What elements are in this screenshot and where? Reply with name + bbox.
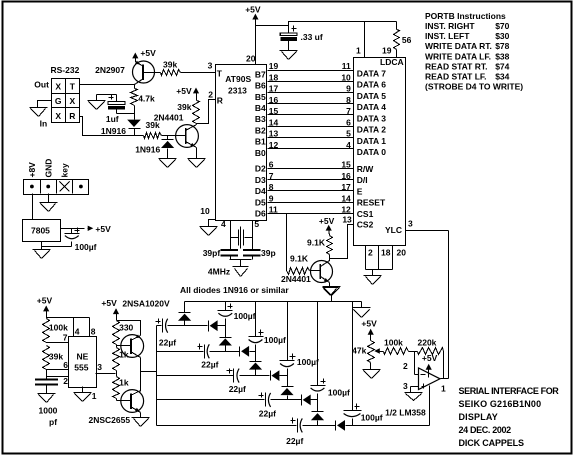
resistor 9.1K (pull-up) bbox=[307, 229, 333, 259]
wire 2N4401 emitter to ground bbox=[196, 148, 198, 159]
svg-text:D5: D5 bbox=[255, 197, 266, 207]
svg-text:DATA 6: DATA 6 bbox=[357, 80, 386, 90]
svg-text:14: 14 bbox=[269, 117, 279, 127]
wire pin 7 bbox=[47, 332, 69, 342]
+5V supply arrow (2N2907 emitter) bbox=[132, 48, 156, 58]
capacitor 22uf (stage 2) bbox=[227, 369, 247, 395]
svg-text:4: 4 bbox=[75, 326, 80, 336]
svg-text:16: 16 bbox=[269, 95, 279, 105]
label pin 11 LDCA bbox=[342, 61, 351, 71]
label pin 1 LDCA bbox=[356, 46, 361, 56]
resistor 100k (555) bbox=[43, 319, 69, 343]
svg-text:100µf: 100µf bbox=[361, 412, 383, 422]
svg-text:D2: D2 bbox=[255, 164, 266, 174]
ground (Q2 emitter) bbox=[188, 159, 206, 168]
label D6 bbox=[255, 209, 266, 219]
IC U1 AT90S2313 bbox=[216, 65, 267, 221]
wire R pin bbox=[197, 100, 216, 125]
capacitor 22uf (stage 0) bbox=[156, 319, 177, 348]
label DATA 7 bbox=[357, 69, 386, 79]
svg-text:100k: 100k bbox=[384, 338, 403, 348]
label pin 17 LDCA bbox=[341, 182, 351, 192]
+5V supply arrow (top rail) bbox=[245, 4, 261, 22]
svg-text:39k: 39k bbox=[177, 102, 191, 112]
svg-text:1: 1 bbox=[441, 383, 446, 393]
wire +5V rail NE555 bbox=[47, 307, 90, 319]
svg-text:7: 7 bbox=[269, 171, 274, 181]
svg-text:DATA 3: DATA 3 bbox=[357, 113, 386, 123]
svg-text:22µf: 22µf bbox=[201, 359, 218, 369]
svg-text:4: 4 bbox=[221, 219, 226, 229]
ground (rail end) bbox=[353, 308, 371, 318]
svg-text:B6: B6 bbox=[255, 81, 266, 91]
svg-text:R/W: R/W bbox=[357, 164, 375, 174]
wire Q3 emitter to ground bbox=[329, 283, 331, 288]
svg-text:+5V: +5V bbox=[140, 48, 156, 58]
svg-text:13: 13 bbox=[342, 214, 352, 224]
diode pump D2 (line0) bbox=[209, 320, 226, 331]
ground (pin 10) bbox=[200, 227, 218, 236]
label pin 4 LDCA bbox=[346, 140, 351, 150]
svg-text:15: 15 bbox=[341, 160, 351, 170]
svg-text:+5V: +5V bbox=[37, 296, 53, 306]
svg-text:12: 12 bbox=[269, 140, 279, 150]
wire B7 to DATA 7 (pins 19->11) bbox=[268, 70, 354, 72]
ground (clamp diode) bbox=[159, 159, 177, 168]
svg-text:DATA 0: DATA 0 bbox=[357, 147, 386, 157]
svg-text:3: 3 bbox=[403, 381, 408, 391]
wire wiper junction bbox=[409, 352, 419, 375]
wire Q5 emitter to ground bbox=[140, 413, 142, 418]
ground (7805) bbox=[33, 250, 51, 259]
svg-text:READ STAT RT.: READ STAT RT. bbox=[425, 61, 488, 71]
wire pin 20 drop bbox=[255, 26, 257, 65]
op-amp U3 1/2 LM358 bbox=[419, 368, 441, 390]
svg-text:$78: $78 bbox=[495, 41, 509, 51]
wire pump bus bbox=[156, 326, 158, 426]
capacitor 39p (right) bbox=[243, 248, 276, 260]
svg-text:3: 3 bbox=[97, 362, 102, 372]
resistor 9.1K (base) bbox=[287, 253, 310, 274]
svg-text:4MHz: 4MHz bbox=[208, 266, 230, 276]
label pin 17 AT90S bbox=[269, 84, 279, 94]
+5V supply arrow (R pull-up) bbox=[176, 86, 199, 96]
wire CS2 bbox=[330, 225, 354, 259]
wire T cell to 2N2907 collector bbox=[80, 84, 135, 86]
svg-text:B0: B0 bbox=[255, 148, 266, 158]
svg-text:B4: B4 bbox=[255, 103, 266, 113]
label pin 16 AT90S bbox=[269, 95, 279, 105]
svg-text:11: 11 bbox=[269, 205, 278, 215]
capacitor 100uf (stage 1) bbox=[218, 302, 256, 338]
resistor 220k (feedback) bbox=[418, 338, 444, 355]
svg-text:$38: $38 bbox=[495, 51, 509, 61]
text title block bbox=[459, 386, 560, 448]
ground (pot) bbox=[363, 370, 381, 379]
resistor 1k (lower) bbox=[113, 377, 129, 399]
svg-text:56: 56 bbox=[402, 35, 412, 45]
svg-text:1uf: 1uf bbox=[106, 114, 119, 124]
label Out bbox=[34, 80, 49, 90]
svg-text:D4: D4 bbox=[255, 186, 266, 196]
svg-text:6: 6 bbox=[63, 360, 68, 370]
connector bottom pins 2 18 20 bbox=[366, 246, 407, 276]
label 2N4401 (RX) bbox=[154, 113, 184, 123]
svg-text:17: 17 bbox=[341, 182, 351, 192]
wire line3 left bbox=[157, 399, 265, 401]
label pin 2 bbox=[208, 89, 213, 99]
svg-text:17: 17 bbox=[269, 84, 279, 94]
label pin 9 LDCA bbox=[346, 84, 351, 94]
label 2NSA1020V bbox=[122, 298, 170, 308]
svg-text:B2: B2 bbox=[255, 126, 266, 136]
wire pin 5 bbox=[253, 219, 260, 250]
label B5 bbox=[255, 92, 266, 102]
svg-text:4: 4 bbox=[346, 140, 351, 150]
diode pump D1 (vertical) bbox=[178, 302, 191, 326]
ground (power conn) bbox=[40, 203, 58, 212]
label pin 8 LDCA bbox=[346, 95, 351, 105]
capacitor 100uf (stage 4) bbox=[311, 302, 350, 412]
svg-text:+5V: +5V bbox=[245, 4, 261, 14]
svg-text:X: X bbox=[55, 82, 61, 92]
label pin 3 bbox=[208, 60, 213, 70]
wire line3 mid bbox=[271, 399, 302, 401]
wire D4 to E (pins 8->17) bbox=[268, 190, 354, 192]
+5V supply arrow (NE555) bbox=[37, 296, 53, 315]
wire ground rail stub bbox=[331, 296, 333, 302]
resistor 56 bbox=[394, 22, 412, 58]
label B2 bbox=[255, 126, 266, 136]
wire line1 left bbox=[157, 351, 204, 353]
label E bbox=[357, 186, 363, 196]
label DATA 0 bbox=[357, 147, 386, 157]
svg-text:24 DEC. 2002: 24 DEC. 2002 bbox=[459, 425, 512, 435]
resistor 39k (555) bbox=[43, 346, 64, 370]
wire pin 6 bbox=[47, 360, 69, 370]
wire line2 left bbox=[157, 375, 234, 377]
svg-text:NE: NE bbox=[77, 352, 89, 362]
svg-text:+5V: +5V bbox=[361, 318, 377, 328]
svg-text:9: 9 bbox=[346, 84, 351, 94]
svg-text:14: 14 bbox=[341, 193, 351, 203]
svg-text:INST. LEFT: INST. LEFT bbox=[425, 31, 470, 41]
wire 39k to base bbox=[162, 135, 186, 137]
svg-text:47k: 47k bbox=[352, 346, 366, 356]
label pin 9 AT90S bbox=[269, 193, 274, 203]
wire D6 to CS1 (pins 11->12) bbox=[268, 213, 354, 215]
svg-text:R: R bbox=[217, 96, 223, 106]
label In bbox=[40, 119, 48, 129]
svg-text:CS1: CS1 bbox=[357, 209, 374, 219]
wire to Q5 base bbox=[117, 399, 131, 401]
label DATA 6 bbox=[357, 80, 386, 90]
svg-text:20: 20 bbox=[246, 54, 256, 64]
svg-text:8: 8 bbox=[269, 182, 274, 192]
label pin 18 AT90S bbox=[269, 72, 279, 82]
+5V supply arrow (driver) bbox=[101, 298, 119, 318]
svg-text:RESET: RESET bbox=[357, 198, 386, 208]
wire rail end bbox=[361, 302, 363, 308]
diode pump D6 (line2) bbox=[271, 370, 288, 381]
diode pump D3 (vertical) bbox=[219, 338, 232, 352]
svg-text:Out: Out bbox=[34, 80, 49, 90]
wire +5V rail to pin20 / cap / 56 resistor bbox=[256, 18, 397, 26]
label pin 5 LDCA bbox=[346, 129, 351, 139]
svg-text:LDCA: LDCA bbox=[380, 57, 404, 67]
wire pin 3 output bbox=[96, 362, 116, 374]
svg-text:100k: 100k bbox=[49, 323, 68, 333]
ground (RS-232 G) bbox=[30, 108, 48, 117]
svg-text:G: G bbox=[55, 96, 62, 106]
label DATA 5 bbox=[357, 91, 386, 101]
svg-text:220k: 220k bbox=[418, 338, 437, 348]
svg-text:B7: B7 bbox=[255, 69, 266, 79]
svg-text:1k: 1k bbox=[119, 349, 129, 359]
svg-text:22µf: 22µf bbox=[159, 337, 176, 347]
wire 7805 ground bbox=[42, 242, 72, 250]
wire ladder ground rail bbox=[185, 301, 362, 303]
wire line0 mid bbox=[168, 325, 208, 327]
resistor 100k (wiper) bbox=[380, 338, 409, 355]
svg-text:$74: $74 bbox=[495, 61, 509, 71]
label DATA 1 bbox=[357, 136, 386, 146]
label D/I bbox=[357, 175, 368, 185]
label 2N4401 (CS2) bbox=[281, 274, 311, 284]
svg-text:DATA 5: DATA 5 bbox=[357, 91, 386, 101]
svg-text:8: 8 bbox=[346, 95, 351, 105]
svg-text:2313: 2313 bbox=[228, 86, 247, 96]
wire B3 to DATA 3 (pins 15->7) bbox=[268, 114, 354, 116]
svg-text:YLC: YLC bbox=[385, 225, 402, 235]
label pin 10 bbox=[200, 206, 210, 216]
label op-amp pin 2 bbox=[403, 361, 408, 371]
transistor Q3 2N4401 (CS2) bbox=[310, 259, 333, 283]
svg-text:RS-232: RS-232 bbox=[51, 65, 80, 75]
label DATA 4 bbox=[357, 102, 386, 112]
wire B6 to DATA 6 (pins 18->10) bbox=[268, 81, 354, 83]
svg-text:9: 9 bbox=[269, 193, 274, 203]
label D5 bbox=[255, 197, 266, 207]
svg-text:39k: 39k bbox=[49, 352, 63, 362]
svg-text:9.1K: 9.1K bbox=[290, 253, 309, 263]
wire line4 left bbox=[157, 425, 297, 427]
capacitor 100uf (stage 3) bbox=[280, 302, 319, 387]
transistor Q4 2SA1020 (PNP) bbox=[117, 334, 144, 357]
resistor 1k (upper) bbox=[113, 345, 129, 371]
capacitor 100uf (stage 2) bbox=[249, 302, 286, 362]
svg-text:10: 10 bbox=[200, 206, 210, 216]
svg-text:(STROBE D4 TO WRITE): (STROBE D4 TO WRITE) bbox=[425, 82, 523, 92]
svg-text:555: 555 bbox=[74, 363, 88, 373]
svg-text:E: E bbox=[357, 186, 363, 196]
svg-text:13: 13 bbox=[269, 129, 279, 139]
svg-text:pf: pf bbox=[49, 417, 57, 427]
wire 1uf top to ground bbox=[97, 95, 117, 101]
svg-text:18: 18 bbox=[269, 72, 279, 82]
diode pump D7 (vertical) bbox=[280, 387, 293, 400]
wire crystal caps to ground bbox=[230, 260, 252, 267]
capacitor 22uf (stage 3) bbox=[259, 393, 277, 419]
+5V supply arrow (CS2 pull-up) bbox=[319, 216, 335, 230]
svg-text:100µf: 100µf bbox=[234, 311, 256, 321]
svg-text:5: 5 bbox=[346, 129, 351, 139]
arrow pot wiper bbox=[374, 348, 380, 353]
label 1000 pf bbox=[39, 406, 58, 427]
svg-text:All diodes 1N916 or similar: All diodes 1N916 or similar bbox=[180, 285, 289, 295]
wire op-amp + input bbox=[403, 381, 419, 393]
svg-text:100µf: 100µf bbox=[264, 335, 286, 345]
wire D2 to R/W (pins 6->15) bbox=[268, 168, 354, 170]
svg-text:T: T bbox=[70, 82, 76, 92]
resistor 39k (T base) bbox=[155, 60, 216, 76]
diode pump D4 (line1) bbox=[240, 346, 256, 357]
svg-text:+5V: +5V bbox=[422, 353, 438, 363]
svg-text:INST. RIGHT: INST. RIGHT bbox=[425, 21, 475, 31]
capacitor 22uf (stage 1) bbox=[198, 344, 219, 370]
label pin 19 AT90S bbox=[269, 61, 279, 71]
label B3 bbox=[255, 114, 266, 124]
label pin 14 AT90S bbox=[269, 117, 279, 127]
svg-text:GND: GND bbox=[43, 159, 53, 178]
ground (Q5) bbox=[132, 418, 150, 427]
wire D5 to RESET (pins 9->14) bbox=[268, 202, 354, 204]
wire line4 mid bbox=[303, 425, 336, 427]
label pin 15 AT90S bbox=[269, 106, 279, 116]
wire GND pin to ground bbox=[48, 194, 50, 203]
wire B2 to DATA 2 (pins 14->6) bbox=[268, 126, 354, 128]
svg-text:2NSC2655: 2NSC2655 bbox=[89, 415, 131, 425]
ground (op-amp +) bbox=[405, 393, 423, 401]
label pin 10 LDCA bbox=[341, 72, 351, 82]
svg-text:DISPLAY: DISPLAY bbox=[459, 412, 498, 422]
ground (1000pf) bbox=[38, 394, 56, 403]
wire line1 mid bbox=[210, 351, 240, 353]
label pin 8 AT90S bbox=[269, 182, 274, 192]
text all diodes note bbox=[180, 285, 289, 295]
capacitor 39pf (left) bbox=[203, 248, 238, 260]
svg-text:1N916: 1N916 bbox=[101, 126, 126, 136]
wire pin 4 bbox=[74, 318, 80, 337]
label D4 bbox=[255, 186, 266, 196]
wire op-amp output bbox=[441, 379, 449, 394]
label CS2 pin 13 bbox=[342, 214, 373, 229]
svg-text:B5: B5 bbox=[255, 92, 266, 102]
transistor Q5 2SC2655 (NPN) bbox=[121, 390, 144, 413]
svg-text:2: 2 bbox=[63, 376, 68, 386]
wire pin 4 bbox=[221, 219, 231, 250]
svg-text:+5V: +5V bbox=[176, 86, 192, 96]
ground (1uf +) bbox=[88, 101, 106, 110]
wire G cell to ground bbox=[38, 101, 52, 108]
resistor 330 bbox=[113, 321, 134, 345]
wire line2 mid bbox=[240, 375, 270, 377]
wire 7805 output bbox=[61, 228, 85, 230]
svg-text:4.7k: 4.7k bbox=[138, 94, 155, 104]
label B7 bbox=[255, 69, 266, 79]
svg-text:key: key bbox=[59, 163, 69, 177]
svg-text:D6: D6 bbox=[255, 209, 266, 219]
capacitor 100uf (7805) bbox=[65, 228, 97, 252]
svg-text:R: R bbox=[69, 111, 75, 121]
svg-text:$70: $70 bbox=[495, 21, 509, 31]
diode pump D8 (line3) bbox=[302, 395, 318, 406]
svg-text:19: 19 bbox=[382, 46, 392, 56]
label B0 bbox=[255, 148, 266, 158]
svg-text:10: 10 bbox=[341, 72, 351, 82]
svg-text:2N4401: 2N4401 bbox=[281, 274, 311, 284]
arrow +5V output bbox=[88, 224, 112, 234]
wire collectors join bbox=[140, 358, 142, 392]
ground (.33 uf) bbox=[280, 51, 298, 60]
capacitor 22uf (stage 4) bbox=[286, 418, 303, 446]
svg-text:6: 6 bbox=[269, 160, 274, 170]
svg-text:In: In bbox=[40, 119, 48, 129]
svg-text:SERIAL INTERFACE FOR: SERIAL INTERFACE FOR bbox=[459, 386, 560, 396]
wire YLC pin 3 bbox=[406, 218, 449, 230]
svg-text:19: 19 bbox=[269, 61, 279, 71]
svg-text:B1: B1 bbox=[255, 137, 266, 147]
diode 1N916 (series) bbox=[101, 120, 141, 136]
svg-text:15: 15 bbox=[269, 106, 279, 116]
wire D3 to D/I (pins 7->16) bbox=[268, 179, 354, 181]
label pin 7 LDCA bbox=[346, 106, 351, 116]
svg-text:18: 18 bbox=[381, 247, 391, 257]
wire B1 to DATA 1 (pins 13->5) bbox=[268, 137, 354, 139]
capacitor 1uf bbox=[106, 95, 135, 125]
svg-text:100µf: 100µf bbox=[75, 242, 97, 252]
svg-text:1/2 LM358: 1/2 LM358 bbox=[385, 407, 426, 417]
svg-text:20: 20 bbox=[397, 247, 407, 257]
svg-text:$34: $34 bbox=[495, 72, 509, 82]
svg-text:DICK CAPPELS: DICK CAPPELS bbox=[459, 438, 525, 448]
svg-text:3: 3 bbox=[408, 218, 413, 228]
wire 1k junction bbox=[116, 371, 118, 377]
svg-text:9.1K: 9.1K bbox=[307, 238, 326, 248]
wire B5 to DATA 5 (pins 17->9) bbox=[268, 92, 354, 94]
wire D6 line to base resistor bbox=[286, 214, 288, 271]
svg-text:22µf: 22µf bbox=[259, 408, 276, 418]
transistor Q1 2N2907 (PNP) bbox=[133, 58, 155, 85]
svg-text:D/I: D/I bbox=[357, 175, 368, 185]
svg-text:WRITE DATA LF.: WRITE DATA LF. bbox=[425, 51, 491, 61]
wire pin 2 bbox=[47, 370, 69, 387]
svg-text:1k: 1k bbox=[119, 377, 129, 387]
ground (Q3) bbox=[323, 288, 339, 296]
text PORTB instructions bbox=[425, 11, 523, 92]
diode pump D5 (vertical) bbox=[249, 362, 262, 376]
svg-text:DATA 2: DATA 2 bbox=[357, 125, 386, 135]
svg-text:2: 2 bbox=[208, 89, 213, 99]
transistor Q2 2N4401 (NPN RX) bbox=[176, 125, 199, 148]
svg-text:16: 16 bbox=[341, 171, 351, 181]
diode pump D9 (vertical) bbox=[311, 412, 324, 426]
svg-text:39p: 39p bbox=[261, 248, 276, 258]
label DATA 3 bbox=[357, 113, 386, 123]
label D3 bbox=[255, 175, 266, 185]
svg-text:12: 12 bbox=[341, 205, 351, 215]
capacitor 100uf (stage 5) bbox=[344, 302, 383, 426]
svg-text:2: 2 bbox=[368, 247, 373, 257]
label pin 12 AT90S bbox=[269, 140, 279, 150]
capacitor 1000 pf bbox=[35, 380, 58, 394]
wire driver output to pump bus bbox=[141, 371, 157, 373]
svg-text:2N2907: 2N2907 bbox=[95, 65, 125, 75]
label B4 bbox=[255, 103, 266, 113]
label pin 6 AT90S bbox=[269, 160, 274, 170]
svg-text:39pf: 39pf bbox=[203, 248, 221, 258]
wire pin 10 bbox=[209, 220, 216, 227]
